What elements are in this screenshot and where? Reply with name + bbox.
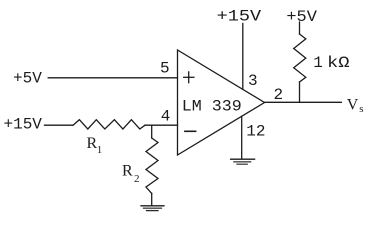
op-amp - input symbol	[185, 130, 196, 132]
wire pin 5 (+ input from +5V)	[48, 77, 177, 79]
wire R1 to pin 4	[145, 124, 178, 126]
svg-text:+15V: +15V	[217, 8, 262, 26]
output wire node 2 to vs	[265, 101, 342, 103]
wire from +15V to R1	[45, 124, 74, 126]
svg-text:s: s	[359, 103, 363, 115]
wire junction to R2	[151, 125, 153, 138]
svg-text:R: R	[122, 162, 133, 179]
wire R2 to ground	[151, 194, 153, 206]
svg-text:kΩ: kΩ	[327, 54, 350, 72]
svg-text:LM 339: LM 339	[182, 97, 242, 115]
svg-text:2: 2	[274, 86, 284, 104]
label R1	[87, 135, 103, 156]
svg-text:2: 2	[134, 173, 140, 185]
svg-text:1: 1	[313, 54, 323, 72]
svg-text:+15V: +15V	[4, 115, 43, 133]
label vs output	[347, 96, 364, 115]
svg-text:+5V: +5V	[286, 8, 317, 26]
svg-text:3: 3	[248, 72, 258, 90]
ground (pin 12)	[231, 159, 255, 164]
label R2	[122, 162, 140, 185]
wire pin 12 to ground	[241, 116, 243, 158]
resistor R2	[146, 138, 158, 194]
op-amp + input symbol	[184, 72, 194, 83]
svg-text:V: V	[347, 96, 359, 113]
ground (below R2)	[141, 206, 164, 211]
svg-text:+5V: +5V	[13, 70, 42, 88]
svg-text:4: 4	[161, 107, 171, 125]
resistor 1 kOhm	[294, 34, 306, 82]
wire pin 3 from +15V	[242, 24, 244, 90]
resistor R1	[73, 120, 145, 129]
svg-text:1: 1	[97, 144, 103, 156]
svg-text:5: 5	[160, 59, 170, 77]
wire 1k to output node	[299, 82, 301, 102]
op-amp U1 LM339 triangle	[178, 50, 265, 155]
wire +5V to 1k resistor	[299, 22, 301, 34]
svg-text:12: 12	[246, 122, 265, 140]
